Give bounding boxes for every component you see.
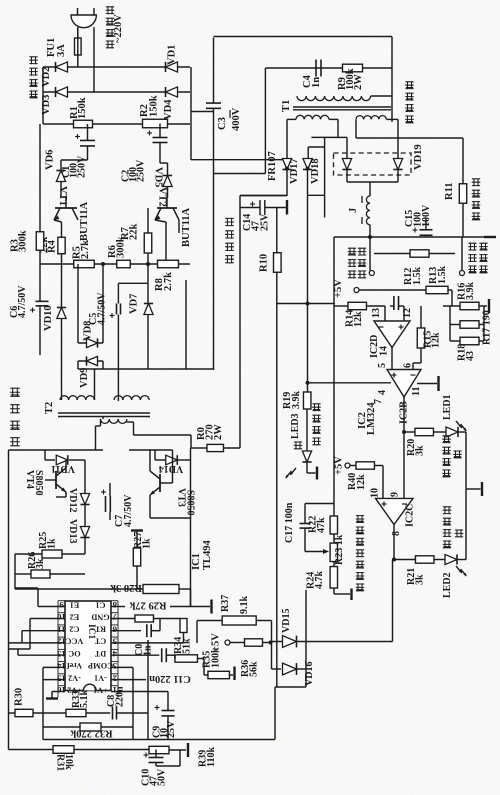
svg-text:300k: 300k [116, 236, 127, 258]
svg-text:VD14: VD14 [159, 463, 183, 474]
svg-text:4.7/50V: 4.7/50V [97, 292, 108, 325]
svg-text:VD4: VD4 [163, 99, 174, 120]
svg-text:150k: 150k [77, 97, 88, 119]
svg-text:TL494: TL494 [202, 539, 213, 570]
svg-text:3k: 3k [415, 445, 426, 456]
svg-text:47k: 47k [316, 517, 327, 533]
svg-text:8: 8 [112, 600, 117, 610]
svg-text:12k: 12k [353, 311, 364, 327]
svg-text:IC2C: IC2C [405, 504, 416, 527]
svg-text:2W: 2W [213, 424, 224, 440]
svg-text:R10: R10 [259, 254, 270, 272]
svg-text:R37: R37 [220, 595, 231, 612]
svg-text:1n: 1n [311, 77, 322, 88]
svg-text:VD7: VD7 [129, 294, 140, 314]
svg-text:DT: DT [94, 649, 106, 658]
svg-text:~220V: ~220V [113, 14, 124, 43]
svg-text:IC1: IC1 [191, 553, 202, 570]
svg-text:R28 3k: R28 3k [110, 582, 142, 593]
svg-text:R30: R30 [14, 688, 25, 706]
svg-text:4: 4 [112, 649, 117, 659]
svg-text:FR107: FR107 [267, 151, 278, 181]
svg-text:T1: T1 [281, 100, 292, 112]
svg-text:R11: R11 [444, 182, 455, 200]
svg-text:VD19: VD19 [413, 144, 424, 170]
svg-text:VD9: VD9 [79, 368, 90, 388]
svg-text:1.5k: 1.5k [412, 267, 423, 286]
svg-text:C17 100n: C17 100n [284, 502, 295, 543]
svg-text:12: 12 [402, 308, 413, 318]
svg-text:VD10: VD10 [43, 305, 54, 331]
svg-text:-V2: -V2 [68, 673, 81, 682]
svg-text:2.7k: 2.7k [80, 240, 91, 259]
svg-text:250V: 250V [136, 159, 147, 182]
svg-text:250V: 250V [77, 155, 88, 178]
svg-text:4.7/50V: 4.7/50V [17, 285, 28, 318]
svg-text:R29 27k: R29 27k [129, 600, 166, 611]
svg-text:R17 190: R17 190 [482, 310, 493, 345]
svg-text:300k: 300k [18, 230, 29, 252]
svg-text:5.1k: 5.1k [79, 690, 90, 709]
svg-text:110k: 110k [206, 747, 217, 767]
svg-text:VCC: VCC [66, 637, 84, 646]
svg-text:3.9k: 3.9k [291, 391, 302, 410]
svg-text:E1: E1 [70, 600, 80, 609]
svg-text:C11 220n: C11 220n [149, 673, 191, 684]
svg-text:VD11: VD11 [51, 463, 75, 474]
svg-text:Vref: Vref [67, 661, 82, 670]
svg-text:400V: 400V [231, 107, 242, 131]
svg-text:R32 270k: R32 270k [70, 728, 112, 739]
svg-text:LM324: LM324 [366, 402, 377, 435]
svg-text:BUT11A: BUT11A [79, 201, 90, 241]
svg-text:7: 7 [112, 612, 117, 622]
svg-text:+5V: +5V [334, 456, 345, 475]
svg-text:4: 4 [377, 390, 388, 395]
svg-text:12k: 12k [356, 474, 367, 490]
svg-text:BUT11A: BUT11A [181, 207, 192, 247]
svg-text:C2: C2 [69, 625, 79, 634]
svg-text:56k: 56k [249, 661, 260, 677]
svg-text:9: 9 [390, 492, 401, 497]
svg-text:2.7k: 2.7k [163, 272, 174, 291]
svg-text:VD5: VD5 [153, 167, 164, 187]
svg-text:12k: 12k [431, 332, 442, 348]
svg-text:+5V: +5V [211, 633, 222, 652]
svg-text:C1: C1 [95, 600, 105, 609]
svg-text:J: J [348, 208, 359, 213]
svg-text:3k: 3k [415, 574, 426, 585]
svg-text:4.7/50V: 4.7/50V [123, 494, 134, 527]
svg-text:-V1: -V1 [94, 673, 107, 682]
svg-text:3A: 3A [56, 44, 67, 57]
svg-text:IC1: IC1 [86, 624, 96, 640]
svg-text:14: 14 [379, 346, 390, 356]
svg-text:VD8: VD8 [83, 321, 94, 341]
svg-text:11: 11 [57, 624, 65, 634]
svg-text:2W: 2W [353, 74, 364, 90]
svg-text:1k: 1k [142, 538, 153, 549]
svg-text:VD1: VD1 [167, 45, 178, 65]
svg-text:2: 2 [112, 673, 117, 683]
svg-text:3.9k: 3.9k [465, 282, 476, 301]
svg-text:VD13: VD13 [67, 519, 78, 543]
svg-text:5: 5 [377, 363, 388, 368]
svg-text:5: 5 [112, 637, 117, 647]
svg-text:6: 6 [403, 363, 414, 368]
svg-text:LED1: LED1 [442, 394, 453, 420]
svg-text:4.7k: 4.7k [314, 571, 325, 590]
svg-text:T2: T2 [44, 402, 55, 414]
svg-text:S8050: S8050 [185, 490, 196, 516]
svg-text:10: 10 [370, 488, 381, 498]
svg-text:9: 9 [59, 600, 64, 610]
svg-text:GND: GND [91, 612, 109, 621]
svg-text:25V: 25V [260, 213, 271, 231]
svg-text:22k: 22k [129, 224, 140, 241]
svg-text:25V: 25V [166, 720, 177, 738]
svg-text:150k: 150k [149, 95, 160, 117]
svg-text:43: 43 [465, 351, 476, 361]
svg-text:VD12: VD12 [67, 488, 78, 512]
svg-text:COMP: COMP [88, 661, 113, 670]
svg-text:6: 6 [112, 624, 117, 634]
svg-text:8: 8 [391, 531, 402, 536]
svg-text:10k: 10k [63, 754, 74, 770]
svg-text:LED2: LED2 [442, 572, 453, 598]
svg-text:R23 1k: R23 1k [334, 534, 345, 565]
svg-text:LED3: LED3 [290, 413, 301, 439]
svg-text:OC: OC [68, 649, 80, 658]
svg-text:S8050: S8050 [33, 470, 44, 496]
svg-text:3k: 3k [35, 558, 46, 569]
svg-text:13: 13 [371, 308, 382, 318]
svg-text:+V1: +V1 [93, 685, 108, 694]
svg-text:1.5k: 1.5k [437, 266, 448, 285]
svg-text:50V: 50V [157, 768, 168, 786]
svg-text:1k: 1k [47, 538, 58, 549]
svg-text:220n: 220n [115, 686, 126, 707]
svg-text:E2: E2 [70, 612, 80, 621]
svg-text:VT2: VT2 [157, 187, 168, 207]
svg-text:VD18: VD18 [310, 158, 321, 184]
svg-text:VD6: VD6 [45, 150, 56, 170]
svg-text:51k: 51k [182, 638, 193, 654]
svg-text:C3: C3 [217, 117, 228, 130]
svg-text:9.1k: 9.1k [239, 596, 250, 615]
svg-text:11: 11 [411, 387, 422, 396]
svg-text:VD15: VD15 [281, 609, 292, 633]
